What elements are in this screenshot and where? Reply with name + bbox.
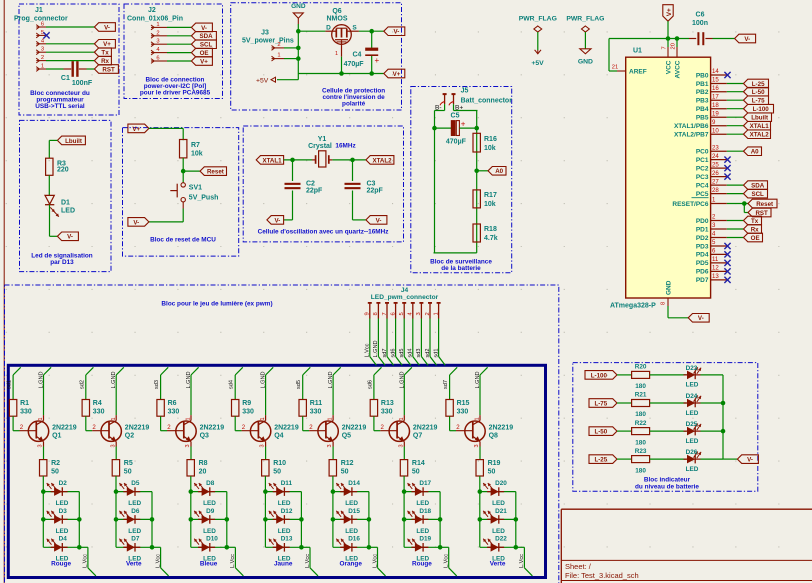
svg-text:PWR_FLAG: PWR_FLAG [519,16,557,23]
svg-text:de la batterie: de la batterie [441,265,481,272]
svg-text:Q5: Q5 [342,433,351,440]
svg-text:sd4: sd4 [229,380,235,389]
svg-text:2: 2 [156,30,159,36]
svg-text:1: 1 [260,417,266,420]
svg-text:R12: R12 [341,460,354,467]
svg-text:LED: LED [686,466,699,473]
svg-text:7: 7 [662,46,668,49]
svg-text:C3: C3 [367,180,376,187]
svg-text:VCC: VCC [666,60,673,74]
svg-text:V-: V- [394,29,400,36]
svg-text:330: 330 [242,409,254,416]
svg-text:7: 7 [382,312,388,315]
svg-text:LED: LED [686,410,699,417]
svg-text:330: 330 [20,409,32,416]
svg-text:22pF: 22pF [367,187,384,194]
svg-text:SV1: SV1 [189,185,202,192]
svg-text:PD3: PD3 [696,243,709,250]
svg-text:Cellule d'oscillation avec un: Cellule d'oscillation avec un quartz--16… [258,229,389,236]
svg-text:NMOS: NMOS [327,16,348,23]
svg-text:D23: D23 [686,365,698,372]
svg-text:3: 3 [260,444,266,447]
svg-text:A0: A0 [495,168,503,175]
svg-text:V-: V- [201,25,207,32]
svg-text:3: 3 [156,39,159,45]
svg-text:C2: C2 [306,180,315,187]
svg-text:LED: LED [203,528,216,535]
svg-text:D1: D1 [61,200,70,207]
svg-text:180: 180 [635,383,646,390]
svg-text:1: 1 [328,417,334,420]
svg-text:PD1: PD1 [696,226,709,233]
svg-text:PD4: PD4 [696,252,709,259]
svg-text:6: 6 [156,56,159,62]
svg-text:25: 25 [712,161,719,168]
svg-text:D18: D18 [419,508,431,515]
svg-text:+: + [461,120,466,129]
svg-text:R9: R9 [242,400,251,407]
svg-text:16: 16 [712,85,719,92]
svg-text:LED: LED [345,500,358,507]
svg-text:du niveau de batterie: du niveau de batterie [635,484,699,491]
svg-text:polarité: polarité [342,100,366,107]
svg-text:sd1: sd1 [7,380,13,389]
svg-text:PC4: PC4 [696,182,709,189]
svg-text:LED: LED [686,382,699,389]
svg-text:R6: R6 [168,400,177,407]
svg-text:Rx: Rx [751,226,759,233]
svg-text:C5: C5 [451,113,460,120]
svg-text:V-: V- [133,219,139,226]
svg-text:sd2: sd2 [79,380,85,389]
svg-text:D22: D22 [495,536,507,543]
svg-text:D16: D16 [348,536,360,543]
svg-text:2N2219: 2N2219 [342,425,367,432]
svg-text:+5V: +5V [256,78,269,85]
svg-text:PC3: PC3 [696,174,709,181]
svg-text:OE: OE [200,50,209,57]
svg-text:470µF: 470µF [446,139,467,146]
svg-text:LED: LED [128,500,141,507]
svg-text:R13: R13 [381,400,394,407]
svg-text:Orange: Orange [340,561,363,568]
svg-text:L.GND: L.GND [475,371,481,388]
svg-text:sd7: sd7 [443,380,449,389]
svg-text:sd2: sd2 [425,348,431,357]
svg-text:LED_pwm_connector: LED_pwm_connector [371,294,439,301]
svg-text:Q7: Q7 [413,433,422,440]
svg-text:L.GND: L.GND [399,371,405,388]
svg-text:6: 6 [41,22,44,28]
svg-text:50: 50 [341,469,349,476]
svg-text:PB4: PB4 [696,106,709,113]
svg-text:2: 2 [381,424,385,431]
svg-text:2: 2 [277,42,280,48]
svg-text:3: 3 [398,444,404,447]
svg-text:D11: D11 [281,480,293,487]
svg-text:D9: D9 [206,508,215,515]
svg-text:V+: V+ [393,71,401,78]
svg-text:LED: LED [203,500,216,507]
svg-text:D12: D12 [281,508,293,515]
svg-text:LED: LED [128,528,141,535]
svg-text:sd3: sd3 [154,380,160,389]
svg-text:D14: D14 [348,480,360,487]
svg-text:Sheet: /: Sheet: / [565,562,592,571]
svg-text:D20: D20 [495,480,507,487]
svg-text:D24: D24 [686,393,698,400]
svg-text:3: 3 [38,444,44,447]
svg-text:D7: D7 [131,536,140,543]
svg-text:AREF: AREF [629,68,647,75]
svg-text:2: 2 [425,312,431,315]
svg-text:USB->TTL serial: USB->TTL serial [35,103,85,110]
svg-text:D21: D21 [495,508,507,515]
svg-text:A0: A0 [751,149,759,156]
svg-text:RESET/PC6: RESET/PC6 [672,201,709,208]
svg-text:L.GND: L.GND [186,371,192,388]
svg-text:XTAL1: XTAL1 [750,123,770,130]
svg-text:R1: R1 [20,400,29,407]
svg-text:R23: R23 [635,448,647,455]
svg-text:20: 20 [671,43,677,49]
svg-text:AVCC: AVCC [675,60,682,78]
svg-text:R11: R11 [310,400,323,407]
svg-text:D25: D25 [686,421,698,428]
svg-text:Lbuilt: Lbuilt [65,138,82,145]
svg-text:XTAL2: XTAL2 [750,132,770,139]
svg-text:1: 1 [335,51,338,57]
svg-text:1: 1 [38,417,44,420]
svg-text:2N2219: 2N2219 [200,425,225,432]
svg-text:L.Vcc: L.Vcc [372,554,378,568]
svg-text:22pF: 22pF [306,187,323,194]
svg-text:LED: LED [56,500,69,507]
svg-text:R14: R14 [412,460,425,467]
svg-text:5V_power_Pins: 5V_power_Pins [242,38,294,45]
svg-text:26: 26 [712,170,719,177]
svg-text:1: 1 [277,53,280,59]
svg-text:Q3: Q3 [200,433,209,440]
svg-text:13: 13 [712,273,719,280]
svg-text:XTAL2/PB7: XTAL2/PB7 [674,132,709,139]
svg-text:8: 8 [661,302,667,305]
svg-text:L-75: L-75 [752,98,765,105]
svg-text:L.Vcc: L.Vcc [444,554,450,568]
svg-text:J3: J3 [261,30,269,37]
svg-text:R21: R21 [635,392,647,399]
svg-text:LED: LED [56,528,69,535]
svg-text:GND: GND [578,58,593,65]
svg-text:1: 1 [186,417,192,420]
svg-text:180: 180 [635,411,646,418]
svg-text:U1: U1 [633,48,642,55]
svg-text:OE: OE [751,235,760,242]
svg-text:LED: LED [492,528,505,535]
svg-text:par D13: par D13 [50,259,74,266]
svg-text:L-100: L-100 [753,106,770,113]
svg-text:10: 10 [712,127,719,134]
svg-text:12: 12 [712,265,719,272]
svg-text:3: 3 [110,444,116,447]
svg-text:100n: 100n [692,20,708,27]
svg-text:PD2: PD2 [696,235,709,242]
svg-text:PB1: PB1 [696,81,709,88]
svg-text:330: 330 [168,409,180,416]
svg-text:50: 50 [412,469,420,476]
svg-text:D6: D6 [131,508,140,515]
svg-text:330: 330 [381,409,393,416]
svg-text:L.GND: L.GND [261,371,267,388]
svg-text:PC2: PC2 [696,165,709,172]
svg-text:PD5: PD5 [696,260,709,267]
svg-text:D: D [326,25,331,32]
svg-text:15: 15 [712,77,719,84]
svg-text:D3: D3 [59,508,68,515]
svg-text:pour le driver PCA9685: pour le driver PCA9685 [140,90,211,97]
svg-text:XTAL1: XTAL1 [262,157,282,164]
svg-text:PB5: PB5 [696,115,709,122]
svg-text:2N2219: 2N2219 [489,425,514,432]
svg-text:Crystal: Crystal [308,143,332,150]
svg-text:PWR_FLAG: PWR_FLAG [566,16,604,23]
svg-text:LED: LED [278,528,291,535]
svg-text:220: 220 [57,167,69,174]
svg-text:R16: R16 [484,136,497,143]
svg-text:D19: D19 [419,536,431,543]
svg-text:8: 8 [373,312,379,315]
svg-text:R18: R18 [484,226,497,233]
svg-text:21: 21 [612,65,618,71]
svg-text:Rouge: Rouge [51,561,71,568]
svg-text:D4: D4 [59,536,68,543]
svg-text:5: 5 [399,312,405,315]
svg-text:GND: GND [291,3,306,10]
svg-text:2N2219: 2N2219 [125,425,150,432]
svg-text:470µF: 470µF [344,61,365,68]
svg-text:1: 1 [156,22,159,28]
svg-text:6: 6 [390,312,396,315]
svg-text:Reset: Reset [207,169,224,176]
svg-text:C1: C1 [61,75,70,82]
svg-text:11: 11 [712,256,719,263]
svg-text:V-: V- [104,24,110,31]
svg-text:3: 3 [41,47,44,53]
svg-text:10k: 10k [191,151,203,158]
svg-text:J2: J2 [148,7,156,14]
svg-text:LED: LED [686,438,699,445]
svg-text:D26: D26 [686,449,698,456]
svg-text:50: 50 [488,469,496,476]
svg-text:D15: D15 [348,508,360,515]
svg-text:V+: V+ [132,126,140,133]
svg-text:PC0: PC0 [696,149,709,156]
svg-text:Batt_connector: Batt_connector [461,97,513,104]
svg-text:16MHz: 16MHz [335,143,355,150]
svg-text:L.Vcc: L.Vcc [365,343,371,357]
svg-text:L.GND: L.GND [373,340,379,357]
svg-text:LED: LED [416,500,429,507]
svg-text:L.Vcc: L.Vcc [305,554,311,568]
svg-text:PB2: PB2 [696,89,709,96]
svg-text:14: 14 [712,68,719,75]
svg-text:PD0: PD0 [696,218,709,225]
svg-text:sd7: sd7 [382,348,388,357]
svg-text:D5: D5 [131,480,140,487]
svg-text:L.Vcc: L.Vcc [83,554,89,568]
svg-text:23: 23 [712,144,719,151]
svg-text:Verte: Verte [126,561,142,568]
svg-text:17: 17 [712,93,719,100]
svg-text:4.7k: 4.7k [484,235,498,242]
svg-text:330: 330 [93,409,105,416]
svg-text:Lbuilt: Lbuilt [751,115,768,122]
svg-text:19: 19 [712,110,719,117]
svg-text:R8: R8 [199,460,208,467]
svg-text:2N2219: 2N2219 [274,425,299,432]
svg-text:C4: C4 [353,52,362,59]
svg-text:28: 28 [712,187,719,194]
svg-text:LED: LED [492,500,505,507]
svg-text:D13: D13 [281,536,293,543]
svg-text:R10: R10 [273,460,286,467]
svg-text:Reset: Reset [756,201,773,208]
svg-text:L.Vcc: L.Vcc [155,554,161,568]
svg-text:PD7: PD7 [696,277,709,284]
svg-text:27: 27 [712,178,719,185]
svg-text:SDA: SDA [751,183,765,190]
svg-text:RST: RST [102,66,115,73]
svg-text:L-50: L-50 [752,89,765,96]
svg-text:180: 180 [635,467,646,474]
svg-text:SCL: SCL [751,191,764,198]
svg-text:Tx: Tx [751,218,759,225]
svg-text:L-100: L-100 [591,372,608,379]
svg-text:Verte: Verte [490,561,506,568]
svg-text:50: 50 [51,469,59,476]
svg-text:+: + [375,56,380,65]
svg-text:5V_Push: 5V_Push [189,195,219,202]
svg-text:3: 3 [416,312,422,315]
svg-text:Q8: Q8 [489,433,498,440]
svg-text:1: 1 [433,312,439,315]
svg-text:3: 3 [327,444,333,447]
svg-text:2N2219: 2N2219 [413,425,438,432]
svg-text:SDA: SDA [200,33,214,40]
svg-text:1: 1 [399,417,405,420]
svg-text:LED: LED [345,528,358,535]
svg-text:+5V: +5V [531,60,544,67]
svg-text:R4: R4 [93,400,102,407]
svg-text:1: 1 [41,64,44,70]
svg-text:V+: V+ [103,41,111,48]
svg-text:S: S [352,25,357,32]
svg-text:XTAL2: XTAL2 [372,157,392,164]
svg-text:PC5: PC5 [696,191,709,198]
svg-text:18: 18 [712,102,719,109]
svg-text:330: 330 [310,409,322,416]
svg-text:R17: R17 [484,192,497,199]
svg-text:Rx: Rx [101,58,109,65]
svg-text:J1: J1 [35,7,43,14]
svg-text:50: 50 [273,469,281,476]
svg-text:2: 2 [456,424,460,431]
svg-text:1: 1 [475,417,481,420]
svg-text:R20: R20 [635,364,647,371]
svg-text:2N2219: 2N2219 [52,425,77,432]
svg-text:10k: 10k [484,201,496,208]
svg-text:180: 180 [635,439,646,446]
svg-text:50: 50 [124,469,132,476]
svg-text:sd6: sd6 [367,380,373,389]
svg-text:SCL: SCL [200,42,213,49]
svg-text:File: Test_3.kicad_sch: File: Test_3.kicad_sch [565,571,639,580]
svg-text:9: 9 [365,312,371,315]
svg-text:V-: V- [747,457,753,464]
svg-text:R15: R15 [457,400,470,407]
svg-text:Tx: Tx [101,50,109,57]
svg-text:LED: LED [416,528,429,535]
svg-text:100nF: 100nF [72,80,93,87]
svg-text:2: 2 [41,55,44,61]
svg-text:R19: R19 [488,460,501,467]
svg-text:D10: D10 [206,536,218,543]
svg-text:Jaune: Jaune [274,561,293,568]
svg-text:XTAL1/PB6: XTAL1/PB6 [674,123,709,130]
svg-text:R22: R22 [635,420,647,427]
svg-text:LED: LED [278,500,291,507]
svg-text:Bloc de reset de MCU: Bloc de reset de MCU [150,237,216,244]
svg-text:D8: D8 [206,480,215,487]
svg-text:L-75: L-75 [594,400,607,407]
svg-text:sd5: sd5 [399,348,405,357]
svg-text:sd4: sd4 [408,348,414,357]
svg-text:V-: V- [274,217,280,224]
svg-text:V-: V- [744,36,750,43]
svg-text:C6: C6 [696,12,705,19]
svg-text:V+: V+ [200,58,208,65]
svg-text:GND: GND [666,280,673,295]
svg-text:PB0: PB0 [696,72,709,79]
svg-text:Bleue: Bleue [200,561,218,568]
svg-text:R7: R7 [191,142,200,149]
svg-text:L.GND: L.GND [111,371,117,388]
svg-text:V+: V+ [666,8,673,16]
svg-text:L.Vcc: L.Vcc [519,554,525,568]
svg-text:3: 3 [185,444,191,447]
svg-text:R5: R5 [124,460,133,467]
svg-text:330: 330 [457,409,469,416]
svg-text:L-50: L-50 [594,429,607,436]
svg-text:1: 1 [111,417,117,420]
svg-text:J5: J5 [461,88,469,95]
svg-text:24: 24 [712,153,719,160]
svg-text:20: 20 [199,469,207,476]
svg-text:sd5: sd5 [296,380,302,389]
svg-text:sd1: sd1 [433,348,439,357]
svg-text:Bloc indicateur: Bloc indicateur [644,477,691,484]
svg-text:Q1: Q1 [52,433,61,440]
svg-text:PD6: PD6 [696,269,709,276]
svg-text:sd6: sd6 [390,348,396,357]
svg-text:Rouge: Rouge [412,561,432,568]
svg-text:2: 2 [20,424,24,431]
svg-text:L.GND: L.GND [328,371,334,388]
svg-text:Q4: Q4 [274,433,283,440]
svg-text:V-: V- [376,217,382,224]
svg-text:sd3: sd3 [416,348,422,357]
svg-text:Bloc pour le jeu de lumière (e: Bloc pour le jeu de lumière (ex pwm) [161,301,272,308]
